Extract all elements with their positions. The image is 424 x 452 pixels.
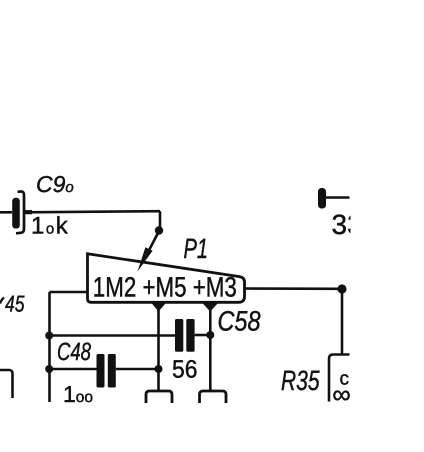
svg-text:1ok: 1ok bbox=[31, 213, 69, 240]
svg-text:1M2 +M5 +M3: 1M2 +M5 +M3 bbox=[93, 272, 237, 303]
svg-text:45: 45 bbox=[5, 291, 25, 317]
svg-text:1oo: 1oo bbox=[63, 381, 93, 407]
svg-text:R35: R35 bbox=[281, 365, 320, 396]
svg-text:C58: C58 bbox=[218, 306, 261, 337]
svg-text:56: 56 bbox=[172, 356, 198, 384]
svg-text:C48: C48 bbox=[57, 338, 91, 366]
svg-text:P1: P1 bbox=[184, 233, 209, 264]
svg-text:C9o: C9o bbox=[36, 171, 74, 197]
svg-text:∞: ∞ bbox=[332, 379, 351, 409]
